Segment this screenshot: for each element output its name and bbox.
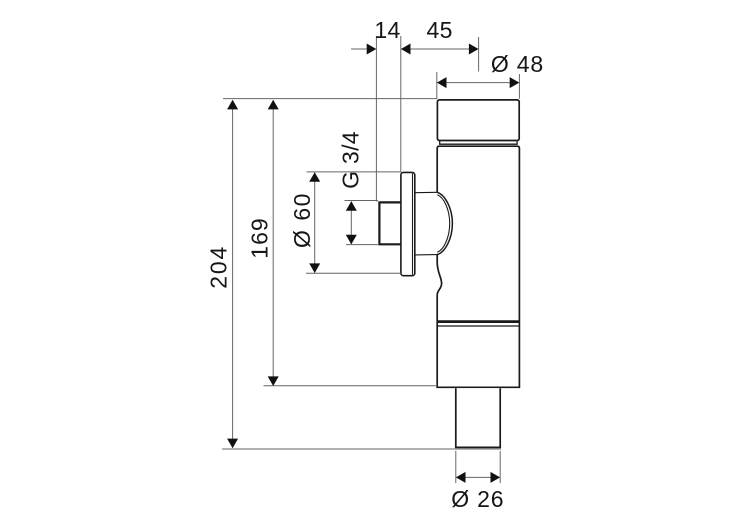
extension line for 45 left (wall/flange face) — [400, 36, 402, 173]
wall flange plate — [401, 172, 415, 275]
svg-text:14: 14 — [374, 17, 400, 43]
svg-text:45: 45 — [427, 17, 453, 43]
label 204 (rotated) — [206, 245, 232, 289]
extension line top of G3/4 (thread top) — [345, 200, 379, 202]
dome outer curve — [437, 192, 452, 254]
cap neck ring — [440, 141, 517, 144]
extension line Ø26 right (pipe right) — [499, 451, 501, 483]
dimension 45 line with arrows — [401, 44, 479, 55]
dimension G3/4 line with arrows — [346, 201, 357, 244]
dimension 204 line with arrows — [227, 100, 238, 448]
label Ø 60 (rotated) — [289, 192, 315, 248]
extension line for 14 (thread face) — [375, 36, 377, 202]
flange inner edge line — [412, 174, 414, 275]
valve body (main cylinder with S-curve left edge) — [437, 146, 519, 387]
dome inner curve — [437, 195, 449, 252]
dome cover (white fill masking body edge) — [415, 192, 453, 255]
extension line bottom of Ø60 (flange bottom) — [306, 272, 401, 274]
extension line Ø48 right — [518, 74, 520, 99]
label 14 — [374, 17, 400, 43]
extension line top (204/169 reference, body top) — [223, 98, 437, 100]
thread pipe G 3/4 (thick walls) — [379, 202, 401, 244]
svg-text:Ø 48: Ø 48 — [491, 51, 544, 77]
extension line for 45 right (body centerline) — [478, 37, 480, 72]
label 45 — [427, 17, 453, 43]
dimension Ø48 line with arrows — [437, 77, 519, 88]
dimension 169 line with arrows — [268, 100, 279, 386]
dimension Ø26 line with arrows — [456, 472, 500, 483]
extension line bottom of 204 (pipe bottom) — [222, 448, 501, 450]
top cap — [437, 100, 519, 141]
extension line Ø48 left — [436, 72, 438, 99]
label Ø 48 — [491, 51, 544, 77]
label G 3/4 (rotated) — [338, 131, 364, 189]
dimension 14 leader with arrow — [351, 44, 376, 55]
extension line bottom of 169 (body bottom) — [264, 385, 438, 387]
body joint thin line below seam — [438, 325, 519, 327]
label Ø 26 — [451, 486, 504, 512]
dome top edge line — [415, 191, 437, 193]
dimension Ø60 line with arrows — [309, 172, 320, 273]
extension line Ø26 left (pipe left) — [455, 451, 457, 483]
svg-text:G 3/4: G 3/4 — [338, 131, 364, 189]
svg-text:169: 169 — [247, 217, 273, 258]
extension line bottom of G3/4 (thread bottom) — [346, 244, 378, 246]
svg-text:Ø 26: Ø 26 — [451, 486, 504, 512]
svg-text:Ø 60: Ø 60 — [289, 192, 315, 248]
outlet pipe — [456, 388, 500, 447]
extension line top of Ø60 (flange top) — [307, 171, 401, 173]
body middle joint thick seam — [437, 320, 519, 323]
dome bottom edge line — [415, 254, 437, 256]
svg-text:204: 204 — [206, 245, 232, 289]
label 169 (rotated) — [247, 217, 273, 258]
